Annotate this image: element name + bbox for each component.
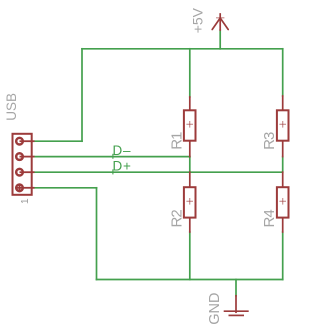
svg-text:GND: GND [207,293,223,325]
svg-text:USB: USB [4,93,19,121]
svg-text:D+: D+ [113,159,132,174]
svg-text:R2: R2 [168,210,185,228]
svg-text:R1: R1 [168,132,185,150]
svg-text:R4: R4 [261,210,278,228]
svg-text:1: 1 [20,198,31,204]
svg-text:D–: D– [113,143,132,158]
svg-text:+5V: +5V [190,7,206,33]
svg-text:R3: R3 [261,132,278,150]
